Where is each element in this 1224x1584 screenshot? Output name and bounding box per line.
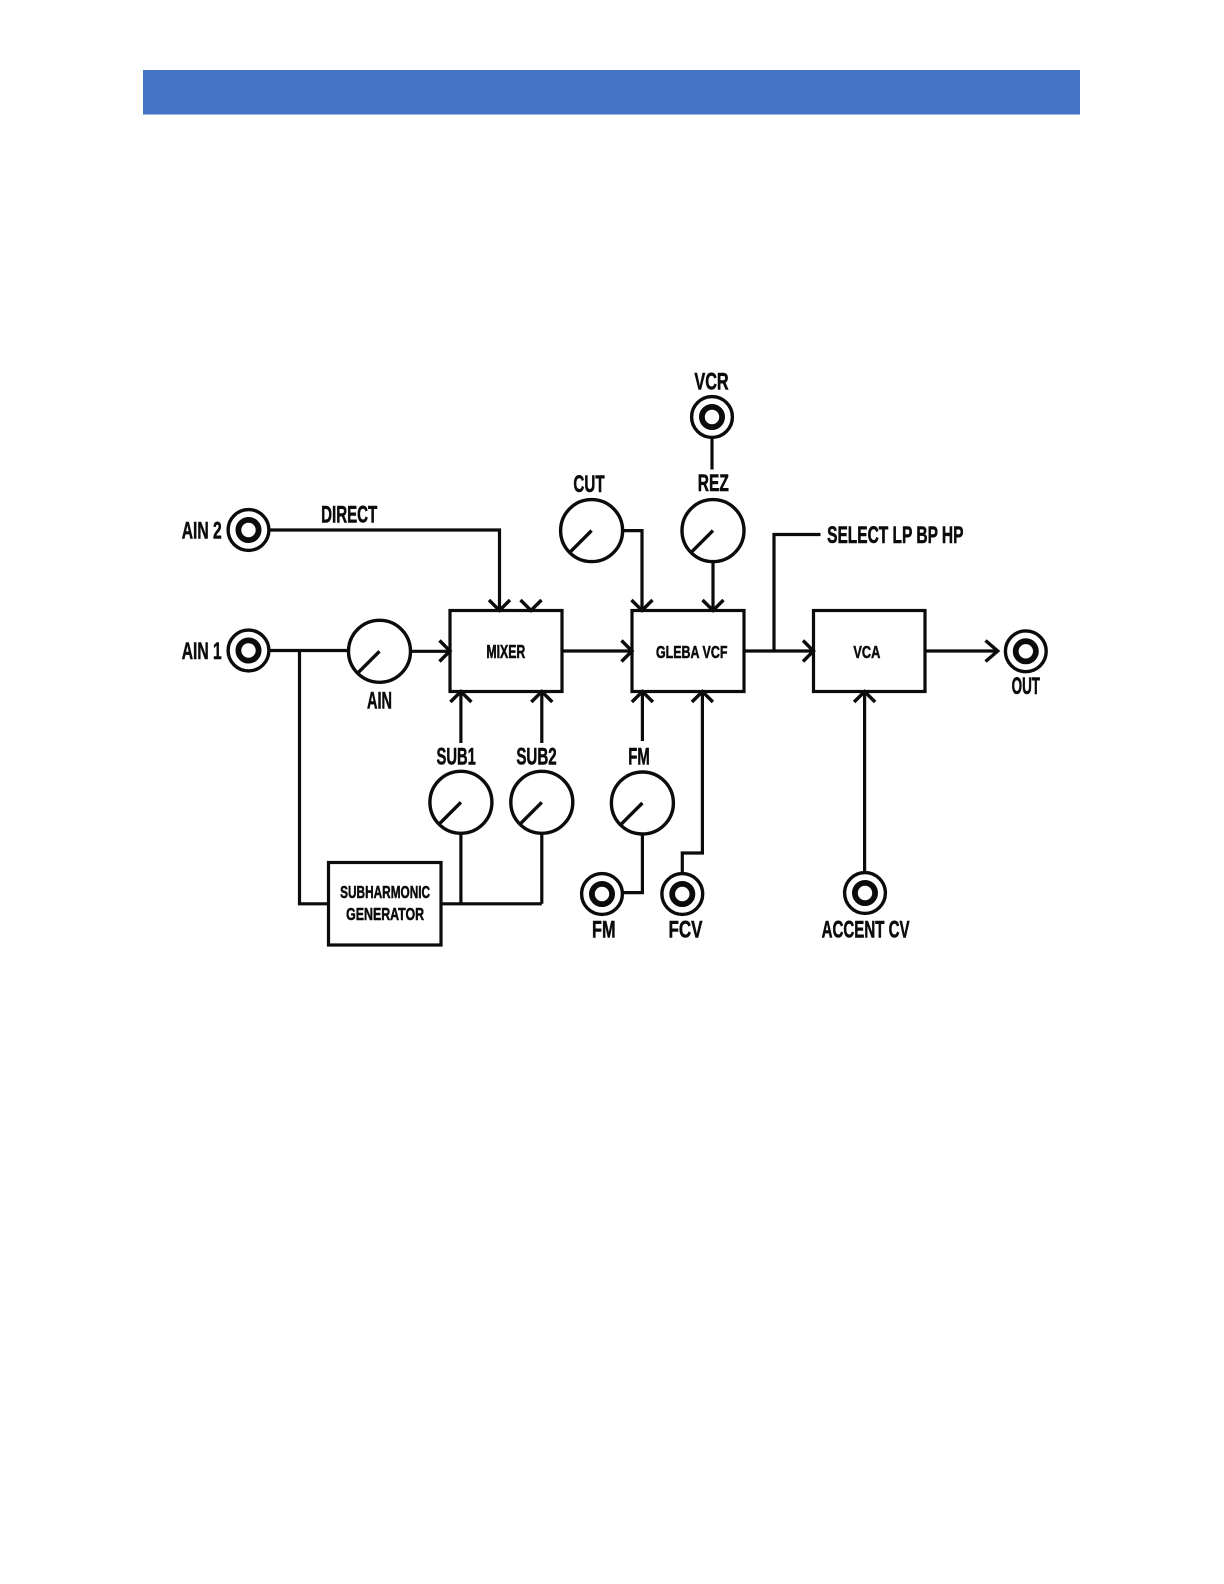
wire FM knob to FM jack [623,834,642,893]
jack ACCENT CV [845,873,886,914]
svg-text:VCA: VCA [853,643,880,663]
title bar [143,70,1080,115]
wire SUB2 to MIXER [540,692,543,743]
knob REZ [682,500,744,562]
arrow into GLEBA VCF top (REZ) [703,600,724,611]
jack FCV [662,874,703,915]
arrow extra on MIXER top [521,600,542,611]
wire MIXER to GLEBA VCF [562,649,632,652]
arrow into MIXER bottom (SUB1) [450,692,471,703]
wire AIN2 to MIXER (DIRECT) [269,530,500,610]
svg-text:MIXER: MIXER [486,643,525,663]
arrow into GLEBA VCF bottom (FCV) [692,692,713,703]
knob SUB2 [511,771,573,833]
svg-text:CUT: CUT [573,472,605,498]
arrow into MIXER left [440,641,451,662]
wire REZ to GLEBA VCF [711,561,714,609]
wire SUB1 to MIXER [459,692,462,743]
jack FM [582,874,623,915]
wire FM knob to GLEBA VCF [641,692,644,741]
box MIXER [450,611,562,692]
svg-text:DIRECT: DIRECT [321,502,378,528]
svg-text:FM: FM [628,744,650,770]
wire ACCENT CV to VCA [863,692,866,873]
arrow into GLEBA VCF left [622,641,633,662]
svg-text:SUB2: SUB2 [516,744,556,770]
box SUBHARMONIC GENERATOR [329,863,442,946]
wire generator bus [441,902,542,905]
svg-text:SELECT LP BP HP: SELECT LP BP HP [827,523,963,549]
wire branch AIN1 to SUBHARMONIC GENERATOR [300,651,329,904]
arrow into VCA left [803,641,814,662]
knob CUT [561,500,623,562]
jack AIN2 [228,510,269,551]
arrow into VCA bottom (ACCENT) [854,692,875,703]
knob FM [611,772,673,834]
svg-text:AIN 1: AIN 1 [182,639,222,665]
wire VCA to OUT [925,649,997,652]
wire AIN1 to AIN knob [269,649,349,652]
box GLEBA VCF [632,611,744,692]
box VCA [814,611,926,692]
wire SUB2 to generator bus [540,833,543,904]
arrow into MIXER top (DIRECT) [489,600,510,611]
svg-text:REZ: REZ [698,471,729,497]
svg-text:SUB1: SUB1 [437,744,476,771]
wire VCR to REZ [710,438,713,470]
svg-text:OUT: OUT [1012,673,1040,700]
wire FCV to GLEBA VCF [682,692,702,873]
knob SUB1 [430,771,492,833]
arrow into GLEBA VCF bottom (FM) [632,692,653,703]
svg-text:FCV: FCV [669,917,703,944]
svg-text:VCR: VCR [694,368,728,395]
wire SELECT tap [774,535,821,652]
jack OUT [1005,631,1046,672]
arrow into MIXER bottom (SUB2) [531,692,552,703]
jack VCR [692,397,733,438]
svg-text:FM: FM [592,917,615,944]
arrow to OUT jack [986,641,998,662]
svg-text:GLEBA VCF: GLEBA VCF [656,643,727,663]
knob AIN [349,620,411,682]
wire CUT to GLEBA VCF [622,531,642,610]
jack AIN1 [228,630,269,671]
arrow into GLEBA VCF top (CUT) [632,600,653,611]
wire AIN knob to MIXER [411,650,450,653]
wire GLEBA VCF to VCA [744,649,813,652]
wire SUB1 to generator bus [459,833,462,904]
svg-text:AIN: AIN [367,688,392,715]
svg-text:ACCENT CV: ACCENT CV [822,917,910,943]
svg-text:SUBHARMONIC: SUBHARMONIC [340,883,430,903]
svg-text:AIN 2: AIN 2 [182,519,222,545]
svg-text:GENERATOR: GENERATOR [346,905,424,925]
